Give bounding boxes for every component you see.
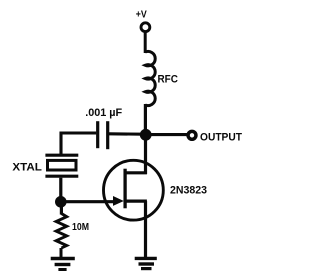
inductor RFC [145,51,178,105]
capacitor C1 .001 uF [85,107,122,149]
wire drain node to JFET drain [144,137,147,174]
wire +V to RFC [144,33,147,53]
ground left [51,259,75,270]
wire gate node to JFET gate [61,200,115,203]
wire node to output terminal [146,133,188,136]
svg-text:10M: 10M [72,222,89,233]
node drain junction [140,129,152,141]
OUTPUT terminal [188,131,242,143]
svg-text:.001 µF: .001 µF [85,107,122,119]
svg-text:+V: +V [136,10,147,21]
ground right [135,258,157,268]
+V supply terminal [136,10,150,32]
svg-text:OUTPUT: OUTPUT [200,132,242,144]
svg-text:RFC: RFC [158,74,178,86]
svg-text:XTAL: XTAL [12,161,42,173]
wire JFET source to ground [144,201,147,258]
JFET Q1 2N3823 [103,160,207,220]
svg-text:2N3823: 2N3823 [170,184,207,196]
resistor R1 10M [56,207,89,259]
wire crystal to gate node [59,178,62,202]
wire cap right plate to drain node [109,132,143,135]
node gate junction [55,196,67,208]
wire RFC to drain node [144,104,147,136]
crystal XTAL [12,155,78,176]
wire cap left plate to crystal top [61,133,96,156]
